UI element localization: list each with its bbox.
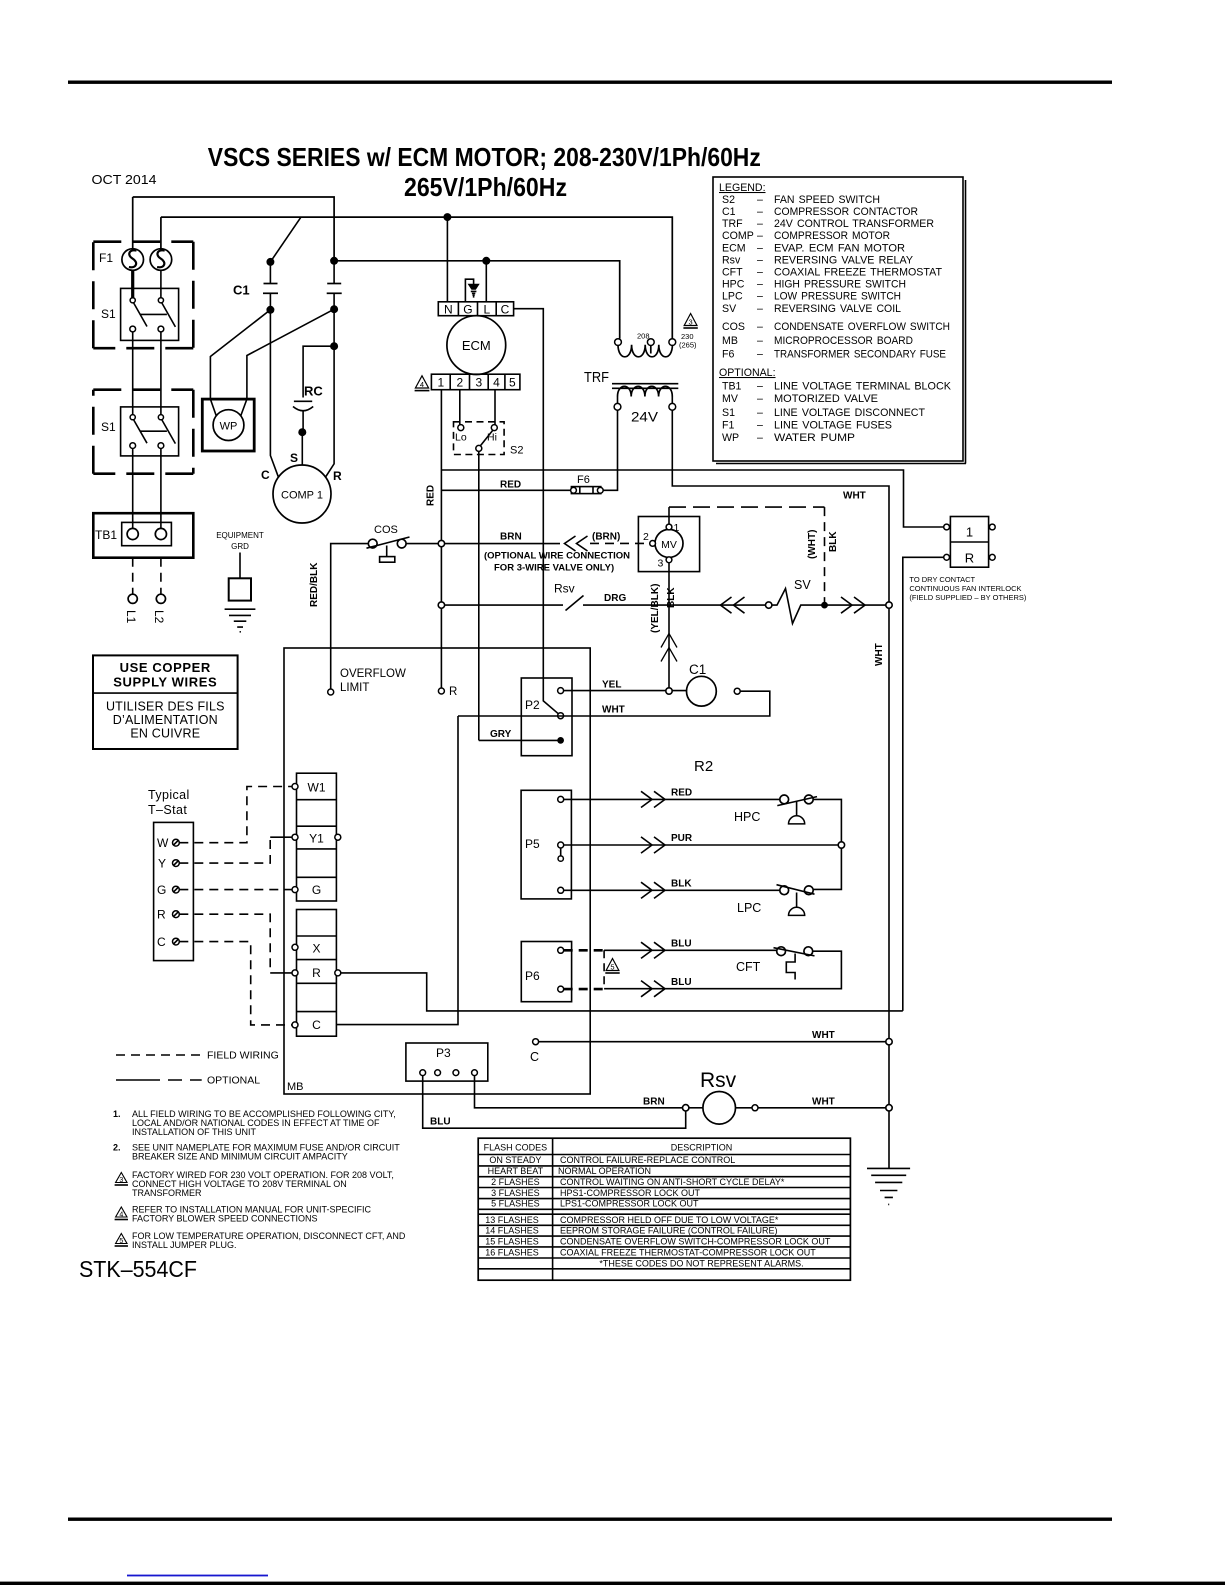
svg-text:1: 1 [437,376,444,390]
wire SV to WHT vertical [825,604,890,606]
svg-text:L1: L1 [124,610,138,624]
svg-text:–: – [757,432,763,444]
svg-text:W: W [157,836,169,850]
P2 pin1 [558,688,564,694]
C spade terminal [533,1039,539,1045]
R terminal [438,688,444,694]
fan switch S2 dashed box [454,422,505,455]
wire ECM pin4 to S2 Hi [494,390,496,425]
svg-text:S1: S1 [101,420,116,434]
svg-text:W1: W1 [308,781,326,795]
earth ground symbol [867,1168,910,1204]
fuse F1 left [122,249,144,271]
wire C1 left bottom to COMP C [270,310,278,477]
svg-text:YEL: YEL [602,680,621,691]
dashed leads TB1 to L1 L2 [133,558,161,594]
warning triangle 5 [606,959,619,971]
terminal strip N G L C [438,302,513,316]
svg-text:R: R [312,966,321,980]
P6 pin1 [558,947,564,953]
dry contact terminals [944,524,950,530]
svg-text:RED: RED [500,480,521,491]
use copper supply wires box [93,655,238,749]
wire ECM pin2 to S2 Lo [459,390,461,425]
page top border [68,81,1112,84]
svg-text:LIMIT: LIMIT [340,682,369,694]
COS contacts [368,539,377,548]
svg-text:LOW PRESSURE SWITCH: LOW PRESSURE SWITCH [774,291,901,303]
wire DRG / SV line [441,604,563,606]
TRF secondary winding [618,386,673,396]
L2 terminal [156,594,165,603]
svg-text:–: – [757,407,763,419]
svg-text:208: 208 [637,332,650,341]
MV pin 2 [650,541,656,547]
field wire C to C [179,942,292,1025]
note triangle 5 [116,1234,127,1244]
svg-text:–: – [757,420,763,432]
microprocessor board MB box [284,648,590,1094]
svg-text:COMPRESSOR HELD OFF DUE TO LOW: COMPRESSOR HELD OFF DUE TO LOW VOLTAGE* [560,1215,779,1225]
svg-text:2.: 2. [113,1143,121,1153]
disconnect S1 upper inner box [121,288,179,340]
svg-text:–: – [757,230,763,242]
Y1 terminals [292,834,298,840]
svg-text:COAXIAL FREEZE THERMOSTAT: COAXIAL FREEZE THERMOSTAT [774,267,943,279]
svg-text:BREAKER SIZE AND MINIMUM CIRCU: BREAKER SIZE AND MINIMUM CIRCUIT AMPACIT… [132,1152,348,1162]
node C1 right top [330,257,338,265]
terminal strip X R C [297,910,337,1037]
svg-text:Rsv: Rsv [554,582,575,596]
warning triangle 4 [415,376,428,388]
chassis ground symbol [468,284,479,289]
svg-text:1.: 1. [113,1109,121,1119]
svg-text:–: – [757,335,763,347]
svg-text:WATER PUMP: WATER PUMP [774,432,855,444]
svg-text:OVERFLOW: OVERFLOW [340,668,406,680]
svg-text:CONTINUOUS FAN INTERLOCK: CONTINUOUS FAN INTERLOCK [909,584,1021,593]
svg-text:–: – [757,393,763,405]
svg-text:14 FLASHES: 14 FLASHES [485,1226,539,1236]
svg-text:C: C [261,468,270,482]
diagonal branch feeder B to C1 left [270,217,301,262]
svg-text:F1: F1 [722,420,734,432]
svg-text:FACTORY BLOWER SPEED CONNECTIO: FACTORY BLOWER SPEED CONNECTIONS [132,1214,318,1224]
node C on WHT vertical [886,1039,892,1045]
wire pin1 branch to dry contact 1 [441,470,944,527]
capacitor C1 right [333,261,335,309]
disconnect S1 lower outer dashed enclosure [93,390,193,474]
svg-text:5: 5 [509,376,516,390]
W1 terminal [292,784,298,790]
Rsv relay coil [689,1107,703,1109]
svg-text:R: R [965,551,974,566]
fuse box F1 outer dashed enclosure [93,242,193,349]
svg-text:4: 4 [493,376,500,390]
wire R terminal to right vertical [341,973,903,1011]
G terminal [292,887,298,893]
svg-text:FIELD WIRING: FIELD WIRING [207,1050,279,1062]
wire node to COMP S [301,432,303,465]
svg-text:CONDENSATE OVERFLOW SWITCH-COM: CONDENSATE OVERFLOW SWITCH-COMPRESSOR LO… [560,1236,831,1246]
svg-text:3: 3 [689,318,693,327]
terminal block TB1 outer box [93,513,193,558]
svg-text:LINE VOLTAGE DISCONNECT: LINE VOLTAGE DISCONNECT [774,407,926,419]
svg-text:TB1: TB1 [95,528,117,542]
svg-text:HPC: HPC [722,279,745,291]
node Rsv on WHT vertical [886,1105,892,1111]
svg-text:NORMAL OPERATION: NORMAL OPERATION [558,1166,651,1176]
svg-text:TRANSFORMER: TRANSFORMER [132,1188,202,1198]
svg-text:OCT 2014: OCT 2014 [92,172,157,187]
TB1 terminals [127,528,138,539]
svg-text:LEGEND:: LEGEND: [719,182,766,194]
wire COS right to BRN junction [406,543,560,545]
MV pin 3 [666,557,672,563]
P2 pin3 node [557,737,564,744]
warning triangle 3 [684,314,697,326]
svg-text:BLU: BLU [671,977,692,988]
node Rsv left [683,1105,689,1111]
svg-text:MV: MV [661,539,677,551]
svg-text:S1: S1 [101,307,116,321]
svg-text:(YEL/BLK): (YEL/BLK) [650,584,661,633]
X terminal [292,944,298,950]
svg-text:HPS1-COMPRESSOR LOCK OUT: HPS1-COMPRESSOR LOCK OUT [560,1188,701,1198]
wire C terminal to WHT riser [336,716,458,1025]
field wire W to W1 [179,787,292,843]
svg-text:*THESE CODES DO NOT REPRESENT: *THESE CODES DO NOT REPRESENT ALARMS. [599,1258,803,1268]
TRF primary winding [618,345,672,357]
connector P6 box [521,942,571,1002]
svg-text:P3: P3 [436,1046,451,1060]
svg-text:OPTIONAL: OPTIONAL [207,1075,260,1087]
svg-text:Rsv: Rsv [700,1069,737,1092]
svg-text:4: 4 [420,380,424,389]
equipment ground lead [239,553,241,579]
svg-text:VSCS SERIES w/ ECM MOTOR; 208-: VSCS SERIES w/ ECM MOTOR; 208-230V/1Ph/6… [208,142,761,172]
svg-text:–: – [757,218,763,230]
svg-text:TRF: TRF [722,218,743,230]
svg-text:(265): (265) [679,341,697,350]
svg-text:3: 3 [658,558,664,570]
wire L up to 208 run [485,261,487,302]
svg-text:TO DRY CONTACT: TO DRY CONTACT [909,575,975,584]
svg-text:15 FLASHES: 15 FLASHES [485,1236,539,1246]
low pressure switch LPC [780,886,789,895]
field wire G to G [179,889,292,891]
legend box [713,177,963,461]
svg-text:Hi: Hi [487,432,497,444]
wire F1 left fuse to S1 (heavy) [131,270,134,297]
S2 Lo contact [458,425,464,431]
svg-text:LPS1-COMPRESSOR LOCK OUT: LPS1-COMPRESSOR LOCK OUT [560,1199,699,1209]
arrow chevrons BLU top [641,942,665,958]
dashed wire MV pin2 (BRN) [590,542,650,544]
svg-text:WHT: WHT [874,643,885,666]
node BRN junction [438,540,444,546]
t-stat box [154,822,194,960]
arrow chevrons BLU bottom [641,981,665,997]
svg-text:COMPRESSOR CONTACTOR: COMPRESSOR CONTACTOR [774,206,918,218]
svg-text:RED: RED [671,788,692,799]
svg-text:ON STEADY: ON STEADY [489,1155,541,1165]
note triangle 4 [116,1207,127,1217]
arrow chevrons left on SV line [721,597,745,613]
svg-text:MB: MB [287,1081,304,1093]
wire P3 pin1 BLU loop [423,1076,686,1129]
svg-text:1: 1 [966,525,973,540]
WHT wire Rsv to ground vertical [758,1107,889,1109]
TRF secondary terminals [618,397,673,404]
svg-text:R2: R2 [694,758,713,775]
svg-text:FAN SPEED SWITCH: FAN SPEED SWITCH [774,194,880,206]
page bottom border [68,1518,1112,1521]
svg-text:–: – [757,349,763,361]
svg-text:L2: L2 [152,610,166,624]
equipment ground symbol [225,609,256,632]
arrow chevrons PUR [641,837,665,853]
svg-text:F6: F6 [722,349,734,361]
wire C (NGLC) down to P2 [514,309,561,716]
svg-text:–: – [757,194,763,206]
svg-text:BLU: BLU [671,939,692,950]
COS blade [367,537,410,548]
svg-text:CONTROL WAITING ON ANTI-SHORT: CONTROL WAITING ON ANTI-SHORT CYCLE DELA… [560,1177,785,1187]
svg-text:5: 5 [610,963,614,972]
svg-text:RC: RC [304,384,323,399]
disconnect S1 lower inner box [121,407,179,456]
svg-text:3: 3 [475,376,482,390]
node L junction [482,257,490,265]
svg-text:USE COPPER: USE COPPER [120,660,211,675]
svg-text:WHT: WHT [812,1097,835,1108]
svg-text:EN CUIVRE: EN CUIVRE [130,727,200,741]
L1 terminal [128,594,137,603]
svg-text:TB1: TB1 [722,381,742,393]
node C1 left top [266,258,274,266]
P2 pin2 [558,713,564,719]
svg-text:REVERSING VALVE RELAY: REVERSING VALVE RELAY [774,255,913,267]
svg-text:R: R [157,908,166,922]
svg-text:C: C [312,1018,321,1032]
svg-text:S2: S2 [510,445,523,457]
svg-text:BLU: BLU [430,1117,451,1128]
node dashed drop on SV line [821,602,828,609]
wire 208/230 run C1-right to TRF left [334,261,620,339]
field wire R to R [179,914,270,973]
svg-text:INSTALL JUMPER PLUG.: INSTALL JUMPER PLUG. [132,1240,237,1250]
wire TRF 24V right to WHT vertical [672,410,889,1168]
svg-text:T–Stat: T–Stat [148,803,187,817]
water pump WP box [202,399,254,451]
svg-text:1: 1 [674,522,680,534]
svg-text:EEPROM STORAGE FAILURE (CONTRO: EEPROM STORAGE FAILURE (CONTROL FAILURE) [560,1226,778,1236]
svg-text:G: G [463,303,472,317]
wire C1 right bottom down to RC node and COMP R [326,309,334,477]
node SV right on WHT vertical [886,602,892,608]
MV motor [655,529,683,557]
YEL wire P2 pin1 to C1 coil [564,690,687,692]
svg-text:WHT: WHT [843,491,866,502]
bottom scan edge line [0,1582,1225,1585]
wire feeder B (L2 phase) top run to TRF [161,217,672,339]
svg-text:CONDENSATE OVERFLOW SWITCH: CONDENSATE OVERFLOW SWITCH [774,321,950,333]
wire F6 to TRF 24V left [603,410,617,490]
P5 stub pin [558,856,563,861]
svg-text:–: – [757,206,763,218]
svg-text:–: – [757,303,763,315]
svg-text:BLK: BLK [671,879,692,890]
wire HPC to PUR junction to LPC [813,799,841,889]
svg-text:EQUIPMENT: EQUIPMENT [216,531,264,540]
WHT wire P2 pin2 loop around C1 coil [458,691,770,716]
svg-text:RED: RED [426,485,437,506]
svg-text:C1: C1 [689,662,706,677]
S1 upper blades [133,303,175,327]
svg-text:COS: COS [374,524,398,536]
dashed jumper plug wires [564,950,604,989]
connector P2 box [521,678,572,756]
P5 pin2 [558,842,564,848]
wire F1 right fuse to second feeder [160,217,162,249]
wire G chassis ground [465,279,473,302]
wires S1 lower to TB1 [133,449,161,529]
PUR wire P5 pin2 to junction [564,844,842,846]
P5 pin1 [558,796,564,802]
node N junction on feeder B [443,213,451,221]
C terminal [292,1022,298,1028]
capacitor C1 left [269,262,271,310]
wire P3 pin4 BRN to Rsv [475,1076,684,1108]
flash codes table frame [478,1138,850,1280]
svg-text:265V/1Ph/60Hz: 265V/1Ph/60Hz [404,172,567,202]
svg-text:CFT: CFT [736,960,761,974]
svg-text:MB: MB [722,335,738,347]
BLU wire P6 pin1 to CFT [604,949,777,951]
svg-text:WP: WP [220,421,238,433]
svg-text:LINE VOLTAGE FUSES: LINE VOLTAGE FUSES [774,420,892,432]
svg-text:3 FLASHES: 3 FLASHES [491,1188,540,1198]
COS float paddle [380,557,395,563]
svg-text:(OPTIONAL WIRE CONNECTION: (OPTIONAL WIRE CONNECTION [484,551,630,562]
svg-text:–: – [757,279,763,291]
svg-text:3: 3 [119,1177,123,1184]
svg-text:FLASH CODES: FLASH CODES [484,1143,548,1153]
arrow chevrons right on SV line [841,597,865,613]
svg-text:OPTIONAL:: OPTIONAL: [719,367,776,379]
svg-text:TRF: TRF [584,369,609,386]
208 tap stub [650,346,652,354]
svg-text:HPC: HPC [734,810,760,824]
S2 common contact [476,445,482,451]
R terminals [292,970,298,976]
optional legend [116,1079,202,1081]
svg-text:SV: SV [722,303,737,315]
S1 lower blade link [140,430,167,432]
svg-text:COAXIAL FREEZE THERMOSTAT-COMP: COAXIAL FREEZE THERMOSTAT-COMPRESSOR LOC… [560,1248,816,1258]
wire CFT loop back to P6 pin2 [604,951,841,989]
wire N up to feeder [446,217,448,302]
svg-text:P5: P5 [525,837,540,851]
svg-text:WHT: WHT [812,1030,835,1041]
svg-text:TRANSFORMER SECONDARY FUSE: TRANSFORMER SECONDARY FUSE [774,349,946,361]
svg-text:C: C [501,303,510,317]
svg-text:PUR: PUR [671,833,693,844]
svg-text:G: G [312,883,321,897]
RED wire to F6 [441,489,571,491]
svg-text:COMP 1: COMP 1 [281,490,323,502]
svg-text:RED/BLK: RED/BLK [309,562,320,607]
row lines [478,1155,850,1269]
node PUR junction [838,842,844,848]
svg-text:G: G [157,883,166,897]
node SV left [766,602,772,608]
node DRG start [438,602,444,608]
COS actuator stem [386,546,388,557]
svg-text:LPC: LPC [722,291,743,303]
node MV branch on YEL [666,688,672,694]
P3 pins [420,1070,426,1076]
svg-text:EVAP. ECM FAN MOTOR: EVAP. ECM FAN MOTOR [774,243,905,255]
svg-text:24V: 24V [631,410,658,425]
terminal strip 1 2 3 4 5 [431,374,520,390]
svg-text:INSTALLATION OF THIS UNIT: INSTALLATION OF THIS UNIT [132,1127,257,1137]
svg-text:F1: F1 [99,251,113,265]
wire RC to S node [302,412,304,433]
svg-text:COS: COS [722,321,745,333]
svg-text:LPC: LPC [737,901,761,915]
svg-text:SV: SV [794,578,811,592]
svg-text:N: N [444,303,453,317]
wires S1 upper to S1 lower [133,332,161,415]
Rsv contact slash [566,596,584,611]
svg-text:MV: MV [722,393,739,405]
svg-text:WHT: WHT [602,705,625,716]
svg-text:Y1: Y1 [309,832,324,846]
wire C1 right bottom to water pump [241,309,335,416]
svg-text:LINE VOLTAGE TERMINAL BLOCK: LINE VOLTAGE TERMINAL BLOCK [774,381,951,393]
svg-text:STK–554CF: STK–554CF [79,1256,197,1282]
svg-text:BLK: BLK [828,531,839,552]
svg-text:–: – [757,255,763,267]
Rsv right terminal [736,1107,753,1109]
wire C to WHT vertical [539,1041,889,1043]
MV pin 1 [666,524,672,530]
svg-text:GRY: GRY [490,729,512,740]
svg-text:Rsv: Rsv [722,255,741,267]
svg-text:ECM: ECM [722,243,746,255]
svg-text:Y: Y [158,857,166,871]
svg-text:16 FLASHES: 16 FLASHES [485,1248,539,1258]
TRF core [612,384,678,389]
node C1 left bottom [266,306,274,314]
fuse F1 right [150,249,172,271]
field wire Y to Y1 [179,837,270,863]
equipment ground box [229,578,251,600]
svg-text:REVERSING VALVE COIL: REVERSING VALVE COIL [774,303,901,315]
wire F1 right fuse to S1 [160,270,162,297]
note triangle 3 [116,1173,127,1183]
column divider [552,1138,554,1280]
svg-text:2 FLASHES: 2 FLASHES [491,1177,540,1187]
svg-text:2: 2 [643,531,649,543]
svg-text:–: – [757,381,763,393]
S1 lower contacts [130,415,135,420]
svg-text:MOTORIZED VALVE: MOTORIZED VALVE [774,393,878,405]
run capacitor RC plates [294,400,312,402]
svg-text:COMPRESSOR MOTOR: COMPRESSOR MOTOR [774,230,890,242]
